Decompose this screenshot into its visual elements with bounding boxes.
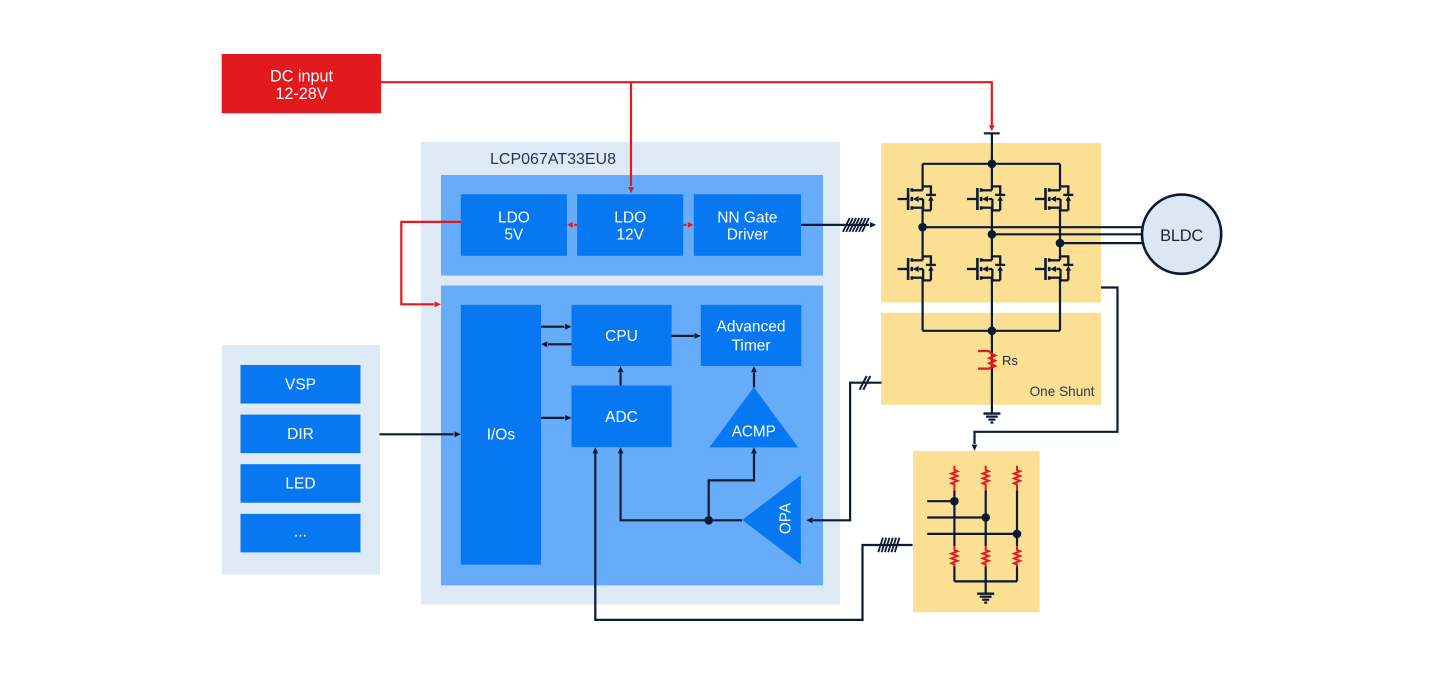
divider network panel <box>913 451 1040 612</box>
DIR button <box>241 415 361 454</box>
red wire DC input to DC bus <box>381 82 995 131</box>
svg-text:Driver: Driver <box>727 227 768 244</box>
wire shunt sense to OPA <box>806 376 881 523</box>
inverter bridge panel <box>881 143 1101 303</box>
op-amp OPA <box>742 475 801 564</box>
svg-text:VSP: VSP <box>285 377 316 394</box>
svg-text:12-28V: 12-28V <box>275 85 327 103</box>
DC bus rail symbol <box>984 132 1000 134</box>
resistor network column C <box>927 466 1021 582</box>
wire I/Os to CPU <box>541 324 572 330</box>
transistor Q3 high-side B <box>967 186 1005 212</box>
wire phase B column <box>991 164 993 331</box>
svg-text:LDO: LDO <box>498 209 530 226</box>
wire phase sense to ADC <box>592 447 912 620</box>
svg-text:LDO: LDO <box>614 209 646 226</box>
transistor Q2 low-side A <box>898 256 936 282</box>
ACMP comparator <box>709 387 798 447</box>
svg-text:BLDC: BLDC <box>1160 227 1203 245</box>
... button <box>241 514 361 553</box>
wire phase A to BLDC <box>923 226 1143 228</box>
svg-text:LCP067AT33EU8: LCP067AT33EU8 <box>490 151 616 168</box>
wire panel input to I/Os <box>380 431 461 437</box>
svg-text:DC input: DC input <box>270 67 333 85</box>
LDO 5V block <box>461 194 567 256</box>
svg-text:NN Gate: NN Gate <box>717 209 777 226</box>
svg-text:ADC: ADC <box>605 409 638 426</box>
wire bridge bottom rail <box>923 330 1060 332</box>
svg-text:LED: LED <box>285 476 315 493</box>
wire junction to ACMP <box>709 447 757 520</box>
transistor Q6 low-side C <box>1035 256 1073 282</box>
left input panel <box>222 345 380 575</box>
node phase C <box>1056 239 1065 248</box>
wire I/Os to ADC <box>541 415 572 421</box>
svg-text:Timer: Timer <box>731 337 770 354</box>
red wire branch to LDO 12V <box>628 82 634 193</box>
resistor network column B <box>927 466 990 594</box>
one shunt panel <box>881 313 1101 405</box>
wire divider bottom rail <box>954 580 1017 582</box>
red wire LDO 12V to NN Gate Driver <box>683 222 693 228</box>
node phase B <box>988 230 997 239</box>
LED button <box>241 464 361 503</box>
wire bridge tap to divider network <box>972 288 1118 451</box>
wire phase C to BLDC <box>1060 242 1143 244</box>
node phase A <box>918 223 927 232</box>
transistor Q1 high-side A <box>898 186 936 212</box>
I/Os block <box>461 305 541 565</box>
svg-text:DIR: DIR <box>287 426 314 443</box>
node OPA output junction <box>704 516 713 525</box>
VSP button <box>241 365 361 404</box>
NN Gate Driver block <box>694 194 801 256</box>
svg-text:OPA: OPA <box>778 502 795 534</box>
wire phase A column <box>921 164 923 331</box>
svg-text:Rs: Rs <box>1002 353 1018 368</box>
wire NN Gate Driver to inverter gates <box>801 218 876 232</box>
wire phase B to BLDC <box>992 233 1143 235</box>
wire CPU to Advanced Timer <box>672 333 701 339</box>
wire bridge top rail <box>923 163 1060 165</box>
wire ADC to CPU <box>618 366 624 386</box>
DC input box <box>222 54 381 113</box>
svg-text:One Shunt: One Shunt <box>1030 384 1095 399</box>
wire shunt leg <box>991 331 993 413</box>
svg-text:CPU: CPU <box>605 328 638 345</box>
wire ACMP to Advanced Timer <box>751 366 757 387</box>
red wire LDO 5V to digital panel <box>401 222 461 307</box>
wire phase C column <box>1059 164 1061 331</box>
resistor Rs shunt <box>978 351 995 369</box>
Advanced Timer block <box>701 305 802 366</box>
node top rail junction <box>988 160 997 169</box>
transistor Q4 low-side B <box>967 256 1005 282</box>
ground below shunt <box>983 414 1000 423</box>
svg-text:ACMP: ACMP <box>732 424 776 441</box>
ADC block <box>572 386 672 448</box>
digital block panel <box>441 286 823 586</box>
svg-text:12V: 12V <box>616 227 644 244</box>
ground below divider <box>977 594 994 603</box>
MCU outer panel LCP067AT33EU8 <box>421 142 840 605</box>
BLDC motor <box>1142 195 1221 274</box>
power block panel <box>441 175 823 276</box>
resistor network column A <box>927 466 959 582</box>
wire CPU to I/Os <box>541 341 572 347</box>
CPU block <box>572 305 672 366</box>
svg-text:I/Os: I/Os <box>487 426 516 443</box>
node bottom rail junction <box>988 327 997 336</box>
svg-text:...: ... <box>294 523 307 540</box>
transistor Q5 high-side C <box>1035 186 1073 212</box>
svg-text:5V: 5V <box>504 227 524 244</box>
red wire LDO 12V to LDO 5V <box>567 222 577 228</box>
LDO 12V block <box>577 194 683 256</box>
wire DC bus down to bridge <box>991 134 993 164</box>
svg-text:Advanced: Advanced <box>717 318 786 335</box>
wire OPA output to ADC <box>618 447 742 520</box>
